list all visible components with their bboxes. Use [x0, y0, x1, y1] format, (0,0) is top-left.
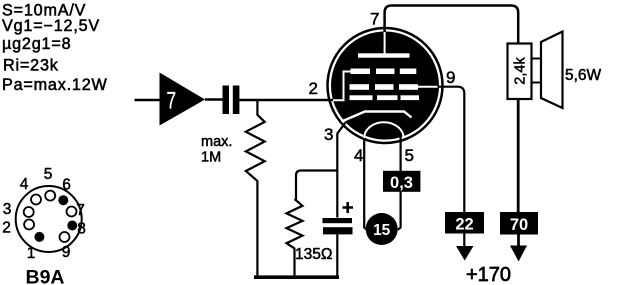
svg-text:9: 9	[62, 244, 71, 261]
svg-text:1: 1	[27, 245, 36, 262]
pin number labels	[309, 10, 456, 166]
cathode wire pin3 down to RC junction and capacitor	[337, 123, 345, 218]
svg-text:5: 5	[44, 166, 53, 183]
svg-text:+170: +170	[466, 264, 511, 285]
bracket wire to cathode resistor	[296, 171, 338, 201]
svg-text:5,6W: 5,6W	[565, 67, 602, 84]
g2 lead (white, inside)	[418, 86, 438, 88]
svg-text:9: 9	[446, 68, 455, 87]
pin 7 (open)	[67, 207, 77, 217]
svg-text:135Ω: 135Ω	[295, 246, 332, 263]
tube data text block	[2, 2, 108, 95]
svg-text:5: 5	[405, 146, 414, 165]
cathode resistor 135 ohm	[287, 199, 303, 276]
label max. 1M	[201, 134, 232, 166]
svg-text:4: 4	[20, 176, 29, 193]
screen grid wire pin9 to 22 box	[436, 87, 464, 212]
svg-text:Pa=max.12W: Pa=max.12W	[2, 76, 108, 94]
pin 9 (open)	[60, 232, 70, 242]
coupling capacitor C	[223, 86, 240, 115]
socket pin numbers	[2, 166, 86, 262]
svg-text:max.: max.	[201, 134, 232, 150]
loudspeaker cone 5,6W	[532, 32, 602, 109]
svg-text:2,4k: 2,4k	[513, 57, 529, 85]
anode wire pin7 to top rail, over to output	[385, 6, 519, 44]
svg-text:3: 3	[324, 125, 333, 144]
grid dashes row 3	[350, 95, 373, 100]
svg-text:0,3: 0,3	[390, 174, 413, 192]
g1 lead (white, inside)	[333, 72, 351, 101]
voltage box 70 with arrow	[500, 212, 538, 262]
wire triangle to coupling capacitor	[205, 98, 223, 100]
svg-text:B9A: B9A	[25, 267, 64, 285]
tube base diagram B9A	[2, 166, 86, 285]
output line to 70 box	[517, 99, 520, 212]
svg-text:15: 15	[373, 222, 391, 239]
pin 4 (open)	[31, 195, 41, 205]
pin 3 (open)	[24, 207, 34, 217]
svg-text:Ri=23k: Ri=23k	[3, 57, 59, 75]
voltage box 22 with arrow	[445, 212, 484, 261]
anode top bar	[358, 53, 410, 57]
heater voltage circle 15	[366, 213, 398, 245]
pin 6 (filled)	[58, 195, 68, 205]
tube envelope	[328, 28, 443, 143]
speaker impedance box 2,4k	[508, 44, 532, 100]
pin 5 (top, open)	[45, 191, 55, 201]
svg-text:8: 8	[77, 221, 86, 238]
bottom rail (common bus)	[254, 275, 339, 279]
svg-text:2: 2	[309, 79, 318, 98]
svg-text:µg2g1=8: µg2g1=8	[2, 35, 71, 53]
pin 1 (filled)	[34, 232, 44, 242]
heater wire pin 4	[364, 134, 367, 230]
svg-text:7: 7	[167, 88, 177, 114]
svg-text:70: 70	[510, 216, 528, 234]
svg-text:2: 2	[2, 220, 11, 237]
svg-text:Vg1=−12,5V: Vg1=−12,5V	[2, 17, 100, 35]
amplifier stage triangle (channel 7)	[160, 73, 206, 126]
grid dashes row 1	[351, 69, 371, 75]
svg-text:7: 7	[76, 202, 85, 219]
svg-text:6: 6	[62, 177, 71, 194]
grid resistor max.1M	[246, 101, 265, 277]
heater current box 0,3	[383, 171, 420, 192]
cathode (white chevron)	[342, 112, 412, 122]
tube internal electrode block	[331, 32, 439, 140]
svg-text:7: 7	[370, 10, 379, 29]
cathode bypass electrolytic capacitor	[323, 202, 354, 276]
grid dashes row 2	[350, 84, 370, 90]
pin 8 (filled)	[67, 221, 77, 231]
anode lead (white, inside)	[384, 32, 386, 55]
pin 2 (open)	[24, 220, 34, 230]
heater wire pin 5	[398, 134, 401, 230]
input wire	[135, 99, 161, 102]
wire capacitor to tube pin 2 (g1)	[239, 99, 334, 102]
heater (white arc)	[364, 122, 403, 138]
svg-text:22: 22	[455, 216, 473, 234]
svg-text:3: 3	[3, 201, 12, 218]
svg-text:1M: 1M	[201, 150, 221, 166]
svg-text:4: 4	[354, 146, 363, 165]
